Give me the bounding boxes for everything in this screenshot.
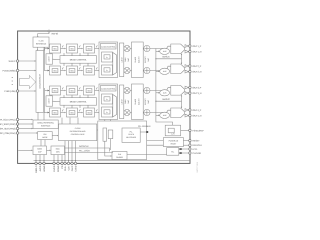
input latch 1 bbox=[46, 54, 53, 64]
wire row 2 seg 3 bbox=[95, 70, 99, 72]
wire latch to multiplier row 2 bbox=[123, 70, 125, 72]
data assembler U1 bbox=[36, 51, 44, 113]
svg-text:IOUT4_P: IOUT4_P bbox=[192, 109, 201, 112]
modulator mux group 1 bbox=[113, 53, 117, 76]
svg-text:DVDD: DVDD bbox=[53, 165, 56, 172]
filter block HB1 row 2 bbox=[50, 66, 61, 75]
wire row 4 seg 3 bbox=[95, 112, 99, 114]
gain/offset adjust block group 1 bbox=[132, 42, 144, 78]
pin IOUT4_N bbox=[189, 114, 191, 116]
wire mode control tick bbox=[63, 95, 65, 98]
PLL phase detector bbox=[108, 130, 113, 139]
filter block HB3 row 3 bbox=[84, 86, 95, 95]
wire PLL multiplier output bbox=[140, 131, 146, 133]
pin IOUT4_P bbox=[189, 109, 191, 111]
pin RESET bbox=[183, 140, 188, 142]
wire vco bias to divider bbox=[105, 141, 111, 156]
datapath row 1 : filter chain bbox=[45, 48, 48, 50]
modulator inner block group 2.1 bbox=[102, 94, 113, 104]
pin AVDD (bottom) bbox=[39, 155, 41, 163]
wire row 3 seg 2 bbox=[78, 90, 82, 92]
wire clock block up tick bbox=[77, 118, 79, 124]
svg-text:DATA ASSEMBLER: DATA ASSEMBLER bbox=[39, 73, 42, 88]
svg-text:IOUT1_N: IOUT1_N bbox=[192, 51, 201, 54]
summer node row 4 bbox=[144, 109, 150, 115]
svg-text:IOUT3_P: IOUT3_P bbox=[192, 86, 201, 89]
wire multiplier to adjust row 1 bbox=[130, 48, 131, 50]
svg-text:CLK+: CLK+ bbox=[64, 165, 67, 171]
svg-text:SPI_SDO (PIN3): SPI_SDO (PIN3) bbox=[0, 127, 16, 130]
svg-text:AGND: AGND bbox=[43, 165, 46, 172]
wire summer to DAC 1 bbox=[150, 46, 171, 48]
pin IOUT2_N bbox=[189, 70, 191, 72]
svg-text:POWER-ON: POWER-ON bbox=[169, 139, 179, 142]
svg-text:IOUT4_N: IOUT4_N bbox=[192, 115, 201, 118]
pin CLKC (bottom) bbox=[71, 141, 73, 163]
svg-text:HB3: HB3 bbox=[87, 48, 90, 51]
wire SPI_SDIO (PIN2) bbox=[19, 123, 32, 125]
DAC 3 (current-steering core) bbox=[171, 86, 185, 96]
DAC 2 (current-steering core) bbox=[171, 64, 185, 74]
svg-text:HB3: HB3 bbox=[87, 70, 90, 73]
svg-text:HB1: HB1 bbox=[53, 48, 56, 51]
svg-text:SPI_CSB (PIN4): SPI_CSB (PIN4) bbox=[0, 132, 16, 135]
PLL filter caps bbox=[179, 148, 181, 150]
modulator inner block group 1.2 bbox=[102, 65, 113, 75]
input data bus wide arrow bbox=[20, 75, 36, 88]
modulator mux group 2 bbox=[113, 95, 117, 118]
filter block HB1 row 3 bbox=[50, 86, 61, 95]
wire row 1 seg 3 bbox=[95, 48, 99, 50]
svg-text:ADJUST: ADJUST bbox=[137, 98, 140, 105]
svg-text:P1B0 (LSB): P1B0 (LSB) bbox=[4, 90, 15, 93]
filter block HB2 row 4 bbox=[67, 108, 78, 117]
svg-text:04777-001: 04777-001 bbox=[196, 161, 199, 172]
filter block HB3 row 2 bbox=[84, 66, 95, 75]
svg-text:BAND: BAND bbox=[37, 148, 42, 151]
aux dac ellipse 4 bbox=[160, 112, 170, 118]
PLL loop filter block bbox=[167, 148, 179, 156]
svg-text:LATCH: LATCH bbox=[120, 56, 123, 62]
svg-text:HB2: HB2 bbox=[70, 112, 73, 115]
wire row 1 seg 2 bbox=[78, 48, 82, 50]
wire PLL_LOCK bbox=[65, 151, 114, 153]
pin PD (bottom) bbox=[61, 155, 63, 163]
svg-text:DISTRIBUTION AND: DISTRIBUTION AND bbox=[70, 130, 86, 133]
multiplier node row 1 bbox=[124, 45, 130, 51]
clock divider block bbox=[112, 152, 127, 160]
svg-text:P1B15 (MSB): P1B15 (MSB) bbox=[3, 69, 16, 72]
svg-text:PLL: PLL bbox=[130, 130, 133, 133]
wire modulator to clock container stubs bbox=[104, 120, 106, 122]
svg-text:PHASE: PHASE bbox=[134, 98, 137, 105]
wire adjust to summer row 1 bbox=[142, 48, 145, 50]
svg-text:SLEEP: SLEEP bbox=[9, 60, 16, 63]
svg-text:CLOCK/CONTROL: CLOCK/CONTROL bbox=[101, 87, 116, 90]
pin P1B0 bbox=[16, 90, 18, 92]
pin CLK+ (bottom) bbox=[64, 141, 66, 163]
datapath row 4 : filter chain bbox=[45, 112, 48, 114]
aux feed stub DAC 4 bbox=[156, 114, 159, 116]
svg-text:2×: 2× bbox=[106, 69, 108, 72]
input latch 2 bbox=[46, 96, 53, 106]
svg-text:CLOCK: CLOCK bbox=[128, 133, 135, 136]
wire FSADJ bbox=[181, 129, 189, 131]
svg-text:PLL ENABLE: PLL ENABLE bbox=[138, 125, 151, 128]
dac latch group 2 bbox=[120, 85, 124, 119]
pin IRQ bbox=[183, 144, 188, 146]
summer node row 1 bbox=[144, 45, 150, 51]
svg-text:IOUT3_N: IOUT3_N bbox=[192, 92, 201, 95]
svg-text:+1.20V: +1.20V bbox=[38, 39, 44, 42]
svg-text:HB2: HB2 bbox=[70, 70, 73, 73]
svg-text:BIASJ2: BIASJ2 bbox=[163, 98, 171, 101]
modulator inner block group 1.1 bbox=[102, 52, 113, 62]
wire pinmode to bandgap bbox=[40, 140, 42, 146]
aux trim box 4 bbox=[172, 113, 176, 117]
bias line group 2 bbox=[156, 100, 182, 102]
wires to power-on reset bbox=[147, 140, 164, 142]
wire mode control tick bbox=[79, 53, 81, 56]
wire adjust to summer row 2 bbox=[142, 70, 145, 72]
power-on reset block bbox=[163, 138, 183, 147]
wire clock block up tick bbox=[69, 118, 71, 124]
svg-text:PD: PD bbox=[61, 165, 64, 168]
wire latch to multiplier row 1 bbox=[123, 48, 125, 50]
wire mode control tick bbox=[87, 95, 89, 98]
wire adjust to summer row 3 bbox=[142, 90, 145, 92]
svg-text:HB1: HB1 bbox=[53, 70, 56, 73]
svg-text:BIASJ1: BIASJ1 bbox=[163, 56, 171, 59]
pin P1B15 (MSB) bbox=[16, 69, 18, 71]
svg-text:IOUT1_P: IOUT1_P bbox=[192, 45, 201, 48]
svg-text:IOUT2_N: IOUT2_N bbox=[192, 71, 201, 74]
svg-text:HB1: HB1 bbox=[53, 90, 56, 93]
pin SPI_CSB (PIN4) bbox=[16, 132, 18, 134]
svg-text:CLKC: CLKC bbox=[71, 165, 74, 171]
svg-text:DGND: DGND bbox=[57, 165, 60, 172]
aux dac ellipse 3 bbox=[160, 90, 170, 96]
filter block HB1 row 4 bbox=[50, 108, 61, 117]
PLL section container bbox=[98, 121, 147, 160]
wire mode control tick bbox=[79, 95, 81, 98]
wire adjust to summer row 4 bbox=[142, 112, 145, 114]
PLL clock multiplier bbox=[122, 128, 140, 142]
pin SPI_SDIO (PIN2) bbox=[16, 123, 18, 125]
voltage reference U-REF 1.2V bbox=[33, 37, 49, 47]
wire P1B0 bbox=[19, 90, 35, 92]
wire DATACLK bbox=[65, 148, 110, 152]
svg-text:2×: 2× bbox=[106, 56, 108, 59]
aux feed stub DAC 3 bbox=[156, 92, 159, 94]
DAC 2 output buffers bbox=[185, 65, 189, 68]
svg-text:CONTROL LOGIC: CONTROL LOGIC bbox=[71, 133, 86, 136]
svg-text:LATCH: LATCH bbox=[120, 98, 123, 104]
pin IOUT3_N bbox=[189, 92, 191, 94]
filter block HB2 row 1 bbox=[67, 44, 78, 53]
pin DGND (bottom) bbox=[57, 155, 59, 163]
multiplier node row 4 bbox=[124, 109, 130, 115]
wire summer to DAC 3 bbox=[150, 88, 171, 91]
wire latch to multiplier row 4 bbox=[123, 112, 125, 114]
wire mode control tick bbox=[63, 53, 65, 56]
data bus ellipsis dots bbox=[12, 77, 13, 78]
wire mode control tick bbox=[71, 95, 73, 98]
pin SPI_SCLK (PIN1) bbox=[16, 118, 18, 120]
wire assembler to SPI bbox=[37, 112, 39, 120]
aux trim box 1 bbox=[172, 49, 176, 53]
wire divider to PLL filter bbox=[127, 154, 167, 156]
pin DVDD (bottom) bbox=[53, 155, 55, 163]
svg-text:SPI_SDIO (PIN2): SPI_SDIO (PIN2) bbox=[0, 123, 16, 126]
svg-text:HB1: HB1 bbox=[53, 112, 56, 115]
wire latch to multiplier row 3 bbox=[123, 90, 125, 92]
gain/offset adjust block group 2 bbox=[132, 84, 144, 120]
wire mode control tick bbox=[71, 53, 73, 56]
svg-text:LPF1: LPF1 bbox=[192, 148, 198, 151]
wire row 2 seg 1 bbox=[61, 70, 65, 72]
PLL bias element bbox=[103, 128, 107, 141]
pin mode box bbox=[38, 132, 53, 140]
aux trim box 3 bbox=[172, 91, 176, 95]
pin IOUT2_P bbox=[189, 65, 191, 67]
wire row 1 seg 1 bbox=[61, 48, 65, 50]
modulator container group 2 bbox=[99, 84, 118, 120]
filter block HB1 row 1 bbox=[50, 44, 61, 53]
svg-text:AVDD: AVDD bbox=[39, 165, 42, 171]
aux feed stub DAC 2 bbox=[156, 70, 159, 72]
wire row 2 seg 2 bbox=[78, 70, 82, 72]
DAC 4 (current-steering core) bbox=[171, 108, 185, 118]
bias gen box bbox=[51, 146, 65, 155]
svg-text:MULTIPLIER: MULTIPLIER bbox=[126, 136, 136, 139]
modulator inner block group 2.2 bbox=[102, 107, 113, 117]
svg-text:CLOCK: CLOCK bbox=[75, 127, 82, 130]
band gap box bbox=[33, 146, 47, 155]
dac latch group 1 bbox=[120, 43, 124, 77]
wire SPI_SDO (PIN3) bbox=[19, 128, 32, 130]
pin LPF1 bbox=[182, 148, 189, 150]
pin CLKVDD bbox=[182, 152, 189, 154]
wire SPI_SCLK (PIN1) bbox=[19, 119, 32, 121]
svg-text:PHASE: PHASE bbox=[134, 56, 137, 63]
pin SPI_SDO (PIN3) bbox=[16, 127, 18, 129]
wire summer to DAC 4 bbox=[150, 110, 171, 112]
svg-text:INTERFACE: INTERFACE bbox=[41, 125, 51, 128]
bias line group 1 bbox=[156, 58, 182, 60]
svg-text:DATACLK: DATACLK bbox=[79, 145, 89, 148]
pin CVDD (bottom) bbox=[75, 141, 77, 163]
pin REFIO (top border) bbox=[48, 30, 50, 32]
svg-text:LATCH: LATCH bbox=[48, 56, 51, 62]
svg-text:REFERENCE: REFERENCE bbox=[36, 43, 47, 46]
svg-text:OFFSET: OFFSET bbox=[144, 98, 147, 106]
summer node row 3 bbox=[144, 87, 150, 93]
aux dac ellipse 2 bbox=[160, 68, 170, 74]
FSADJ reference block bbox=[165, 125, 180, 136]
svg-text:DIVIDER: DIVIDER bbox=[116, 156, 124, 159]
serial peripheral interface block bbox=[33, 120, 58, 129]
wire phase detector to divider bbox=[110, 139, 112, 150]
svg-text:OFFSET: OFFSET bbox=[144, 56, 147, 64]
svg-text:ADJUST: ADJUST bbox=[137, 56, 140, 63]
modulator container group 1 bbox=[99, 42, 118, 78]
svg-text:CLK-: CLK- bbox=[67, 165, 70, 170]
pin TXENABLE bbox=[16, 60, 18, 62]
wire multiplier to adjust row 4 bbox=[130, 112, 131, 114]
DAC 3 output buffers bbox=[185, 86, 189, 89]
filter block HB3 row 4 bbox=[84, 108, 95, 117]
svg-text:HB3: HB3 bbox=[87, 112, 90, 115]
svg-text:CVDD: CVDD bbox=[74, 165, 77, 172]
datapath row 2 : filter chain bbox=[45, 70, 48, 72]
wire multiplier to adjust row 3 bbox=[130, 90, 131, 92]
pin IOUT3_P bbox=[189, 86, 191, 88]
aux feed stub DAC 1 bbox=[156, 50, 159, 52]
pin IOUT1_N bbox=[189, 50, 191, 52]
svg-text:REFLO: REFLO bbox=[35, 165, 38, 172]
svg-text:PLL: PLL bbox=[171, 150, 174, 153]
svg-text:MODE: MODE bbox=[42, 136, 48, 139]
pin FSADJ bbox=[189, 129, 191, 131]
svg-text:SERIAL PERIPHERAL: SERIAL PERIPHERAL bbox=[37, 122, 54, 125]
aux trim box 2 bbox=[172, 69, 176, 73]
svg-text:CLOCK/CONTROL: CLOCK/CONTROL bbox=[101, 45, 116, 48]
wire TXENABLE bbox=[19, 60, 35, 62]
mode control block 1 bbox=[60, 56, 97, 64]
pin REFLO (bottom) bbox=[35, 155, 37, 163]
wire row 4 seg 2 bbox=[78, 112, 82, 114]
feed bus group 1 bbox=[44, 48, 46, 72]
bottom rail wire bbox=[34, 160, 190, 162]
multiplier node row 2 bbox=[124, 67, 130, 73]
wire summer to DAC 2 bbox=[150, 66, 171, 70]
svg-text:LATCH: LATCH bbox=[48, 98, 51, 104]
filter block HB2 row 2 bbox=[67, 66, 78, 75]
svg-text:SPI_SCLK (PIN1): SPI_SCLK (PIN1) bbox=[0, 118, 16, 121]
mode control block 2 bbox=[60, 98, 97, 106]
summer node row 2 bbox=[144, 67, 150, 73]
svg-text:REFIO: REFIO bbox=[52, 33, 59, 36]
wire row 4 seg 1 bbox=[61, 112, 65, 114]
svg-text:MODE CONTROL: MODE CONTROL bbox=[70, 59, 88, 62]
wire SPI_CSB (PIN4) bbox=[19, 132, 37, 134]
chip outline border bbox=[18, 31, 190, 163]
svg-text:2×: 2× bbox=[106, 111, 108, 114]
wire latch to mode control 2 bbox=[53, 100, 61, 102]
svg-text:MODE CONTROL: MODE CONTROL bbox=[70, 101, 88, 104]
wire row 3 seg 3 bbox=[95, 90, 99, 92]
datapath row 3 : filter chain bbox=[45, 90, 48, 92]
wire clock block to PLL container bbox=[97, 129, 98, 131]
clock distribution block bbox=[59, 124, 97, 141]
reference rail bbox=[156, 49, 173, 126]
multiplier node row 3 bbox=[124, 87, 130, 93]
svg-text:DATACLK: DATACLK bbox=[192, 144, 202, 147]
filter block HB2 row 3 bbox=[67, 86, 78, 95]
wire row 3 seg 1 bbox=[61, 90, 65, 92]
pin IOUT1_P bbox=[189, 45, 191, 47]
DAC 1 (current-steering core) bbox=[171, 44, 185, 54]
svg-text:IOUT2_P: IOUT2_P bbox=[192, 65, 201, 68]
feed bus group 2 bbox=[44, 88, 46, 113]
wire multiplier to adjust row 2 bbox=[130, 70, 131, 72]
wire pinmode to clock block bbox=[52, 135, 57, 137]
DAC 1 output buffers bbox=[185, 45, 189, 48]
pin AGND (bottom) bbox=[43, 155, 45, 163]
wire latch to mode control 1 bbox=[53, 58, 61, 60]
svg-text:HB3: HB3 bbox=[87, 90, 90, 93]
wire border to bandgap bbox=[18, 149, 31, 151]
wire reference to data assembler bbox=[37, 47, 39, 50]
svg-text:HB2: HB2 bbox=[70, 48, 73, 51]
wire REFIO to reference bbox=[38, 32, 49, 36]
svg-text:RESET: RESET bbox=[192, 140, 200, 143]
wire bandgap to bias bbox=[47, 149, 50, 151]
svg-text:FSADJ/REF: FSADJ/REF bbox=[192, 129, 204, 132]
aux dac ellipse 1 bbox=[160, 48, 170, 54]
pin CLK- (bottom) bbox=[68, 141, 70, 163]
wire mode control tick bbox=[87, 53, 89, 56]
svg-text:PLL_LOCK: PLL_LOCK bbox=[79, 150, 90, 153]
wire P1B15 bbox=[19, 70, 35, 72]
DAC 4 output buffers bbox=[185, 109, 189, 112]
filter block HB3 row 1 bbox=[84, 44, 95, 53]
svg-text:CLKVDD: CLKVDD bbox=[192, 152, 201, 155]
wire clock block up tick bbox=[61, 118, 63, 124]
svg-text:2×: 2× bbox=[106, 98, 108, 101]
svg-text:RESET: RESET bbox=[171, 142, 178, 145]
svg-text:HB2: HB2 bbox=[70, 90, 73, 93]
